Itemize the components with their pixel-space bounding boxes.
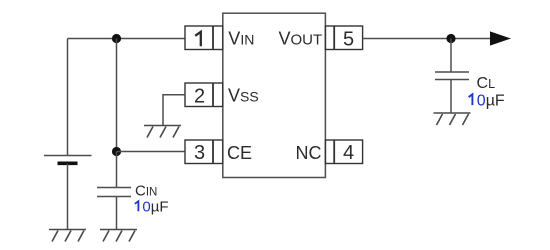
ground below CIN (100, 230, 137, 242)
pin 4 (325, 140, 362, 164)
pin number 1 (195, 32, 201, 46)
node output junction (446, 34, 455, 43)
svg-text:4: 4 (343, 142, 354, 164)
wire VSS to ground (163, 95, 185, 125)
capacitor CIN plates (97, 188, 131, 197)
svg-text:VIN: VIN (228, 29, 254, 49)
value CL 10uF (469, 92, 505, 109)
capacitor CL plates (435, 72, 469, 80)
battery positive plate (44, 155, 92, 157)
wire CIN vertical lower (116, 152, 118, 188)
wire battery branch vertical (67, 39, 69, 156)
wire CL vertical upper (450, 39, 452, 73)
arrow output (490, 31, 511, 45)
svg-text:VOUT: VOUT (279, 29, 323, 49)
ground VSS (144, 126, 181, 138)
pin 2 (185, 83, 223, 107)
pin 3 (185, 140, 223, 164)
wire CIN vertical upper (116, 39, 118, 152)
svg-text:NC: NC (296, 143, 322, 163)
wire main input horizontal (68, 38, 186, 40)
svg-text:0µF: 0µF (142, 199, 168, 216)
ground below CL (434, 113, 471, 125)
svg-text:2: 2 (194, 85, 205, 107)
svg-text:CL: CL (477, 75, 496, 92)
wire battery to ground (67, 164, 69, 230)
ground below battery (49, 230, 86, 242)
node CE junction (112, 147, 121, 156)
value CIN 10uF (135, 199, 169, 216)
svg-text:5: 5 (343, 29, 354, 51)
svg-text:3: 3 (194, 142, 205, 164)
node input junction (112, 34, 121, 43)
svg-text:CE: CE (227, 143, 252, 163)
svg-text:0µF: 0µF (477, 92, 505, 109)
battery negative plate (58, 162, 78, 166)
IC U1 body (regulator) (223, 13, 326, 177)
wire CE horizontal (117, 151, 186, 153)
pin 1 (185, 26, 223, 50)
pin 5 (325, 26, 362, 50)
wire output horizontal (363, 38, 491, 40)
wire CL to ground (450, 80, 452, 113)
svg-text:VSS: VSS (228, 86, 259, 106)
wire CIN to ground (116, 197, 118, 230)
